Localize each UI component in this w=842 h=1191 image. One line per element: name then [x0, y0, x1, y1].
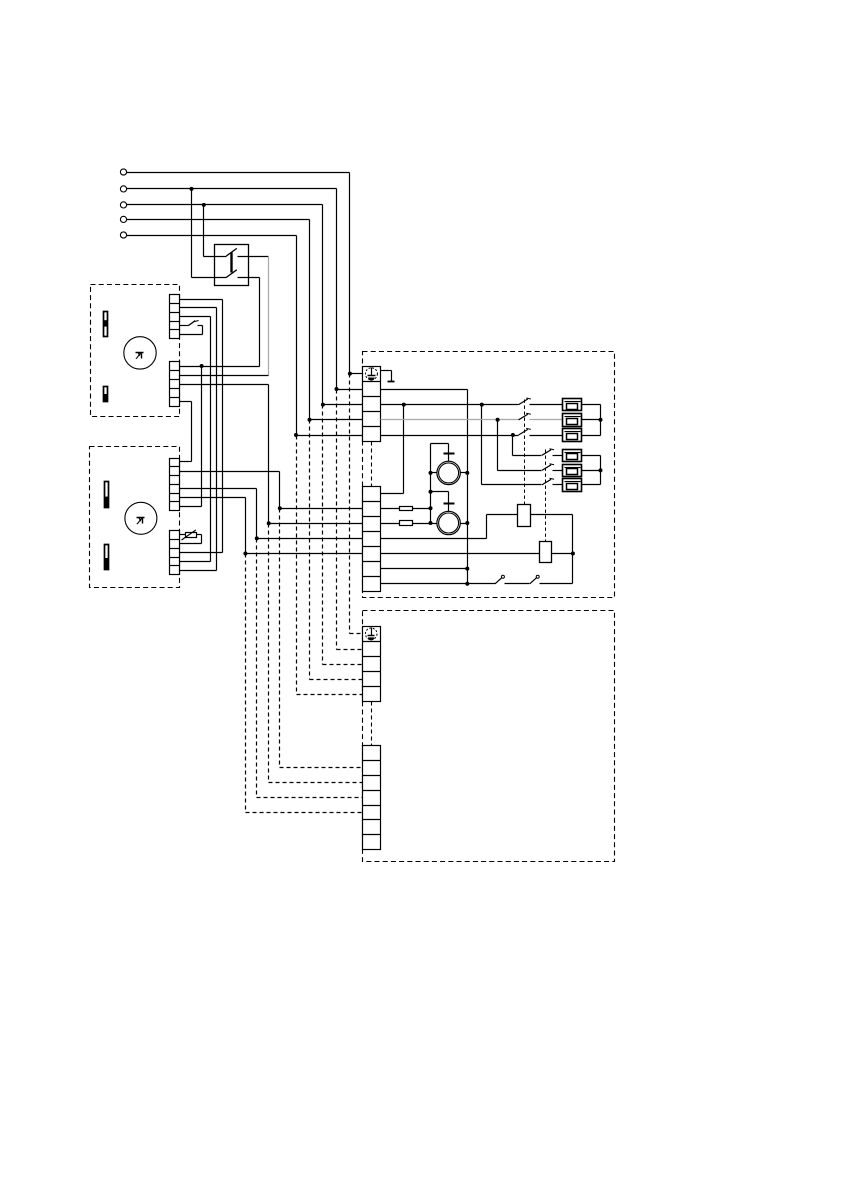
earth stub right of X3 — [381, 370, 392, 372]
supply terminal L4 (open circle) — [120, 216, 126, 222]
wire: X1 lower cell2 to switch (gray riser at x=268.6) — [180, 375, 269, 377]
terminal strip X6 (lower) — [363, 746, 381, 850]
node: row2 tap to X4.1 — [402, 403, 406, 407]
hidden wire L1 down to lower connector (dashed) — [349, 374, 351, 634]
switch S1 pole 1 right contact — [238, 256, 269, 258]
supply terminal L1 (open circle) — [120, 169, 126, 175]
wire: switch pole 2 output to motor1 strip — [180, 366, 260, 368]
node: L3 tap junction — [202, 203, 206, 207]
enclosure: motor unit 2 (dashed box) — [90, 447, 180, 588]
node L5/terminal-strip junction — [294, 433, 298, 437]
contactor K1 contact 1 (blade) — [519, 399, 528, 405]
bottom rail with thermostat contacts — [381, 583, 496, 585]
heating element E1 — [563, 399, 582, 411]
pump P1 left stub — [431, 472, 437, 474]
pump P2 left stub — [431, 523, 437, 525]
wire: X1.3 to motor2 strip (via x=210.7) — [180, 316, 211, 318]
wire L3 horizontal — [127, 204, 323, 206]
wire L4 into control strip — [310, 419, 363, 421]
pump P2 right stub — [461, 523, 468, 525]
wire: X2.2 to control strip row2 — [180, 471, 280, 473]
dashed link X3-X4 — [371, 442, 373, 487]
motor M2 (circle) — [125, 502, 157, 534]
wire L5 horizontal — [127, 235, 297, 237]
node L3/terminal-strip junction — [321, 403, 325, 407]
terminal strip X3 (control, upper) — [363, 367, 381, 442]
pump P1 right stub — [461, 472, 468, 474]
wire: K1 coil right — [531, 514, 573, 516]
pump P1 (double circle) — [437, 461, 460, 484]
wire: X3.1 right to main riser — [381, 389, 468, 391]
wire row2: X3.2 right — [381, 404, 519, 406]
wire: L3 tap down to switch pole 1 — [203, 205, 205, 257]
terminal strip X2 lower (motor unit 2) — [170, 531, 180, 575]
wire row3 (gray): X3.3 right — [381, 419, 519, 421]
heating element E3 — [563, 429, 582, 442]
switch S1 pole 1 blade — [226, 248, 237, 256]
wire L1 horizontal — [127, 172, 350, 174]
node: row2 tap to heater bank 2 — [480, 403, 484, 407]
main riser x=467.3 — [467, 390, 469, 584]
fuse F4 (motor unit 2) — [105, 545, 109, 570]
PE symbol in X3 — [365, 368, 377, 380]
wire L2 horizontal — [127, 188, 337, 190]
resistor R1 — [381, 508, 400, 510]
wire: X2.5 to control strip row5 — [180, 497, 246, 499]
wire: X2.4 to control strip row4 — [180, 488, 257, 490]
fuse F3 (motor unit 2) — [105, 482, 109, 508]
thermostat contact B1 — [495, 578, 502, 584]
contactor K1 contact 3 (blade) — [519, 429, 528, 435]
thermostat contact B2 — [530, 578, 537, 584]
supply terminal L3 (open circle) — [120, 202, 126, 208]
heater bank 1 common wire — [582, 404, 601, 406]
wire: X1 lower cell3 to control strip — [180, 384, 269, 386]
heating element E2 — [563, 414, 582, 427]
heating element E6 — [563, 479, 582, 492]
main switch S1 (box) — [215, 245, 249, 286]
supply terminal L2 (open circle) — [120, 186, 126, 192]
node: junction at control strip row2 — [278, 506, 282, 510]
terminal strip X2 upper (motor unit 2) — [170, 459, 180, 511]
wire: switch pole 1 output down (gray) — [268, 257, 270, 376]
contactor K2 contact 1 (blade) — [542, 450, 551, 456]
wire: X4.4 to relay K1 coil — [381, 538, 487, 540]
enclosure: lower connection unit (dashed box) — [363, 611, 615, 862]
wire: K2 coil right — [552, 553, 573, 555]
wire: L2 tap down to switch pole 2 — [191, 189, 193, 278]
wire: X1.1 to motor2 strip (via x=222) — [180, 299, 223, 301]
node L1/terminal-strip junction — [348, 372, 352, 376]
enclosure: motor unit 1 (dashed box) — [91, 285, 180, 417]
relay coil K2 (box) — [540, 542, 552, 563]
wire L2 into control strip — [337, 389, 363, 391]
node: junction at control strip row5 — [243, 552, 247, 556]
wire L4 vertical down — [309, 220, 311, 420]
resistor R2 — [381, 523, 400, 525]
terminal strip X4 (control, lower) — [363, 487, 381, 592]
pump P2 top stub with bar — [448, 492, 450, 512]
node: junction at control strip row4 — [255, 536, 259, 540]
PE symbol in X5 — [365, 628, 377, 640]
hidden wire down to lower connector (dashed, x=268.7) — [268, 524, 270, 783]
contactor K1 contact 2 (blade) — [519, 414, 528, 420]
thermal contact on X1.4/X1.5 — [180, 325, 189, 327]
node: junction at control strip row3 — [267, 521, 271, 525]
switch S1 pole 2 blade — [226, 270, 237, 278]
node L2/terminal-strip junction — [335, 387, 339, 391]
wire: X1.2 to motor2 strip (via x=216.4) — [180, 307, 217, 309]
terminal strip X1 upper (motor unit 1) — [170, 295, 180, 339]
pump P1 top stub with bar — [448, 444, 450, 462]
terminal strip X1 lower (motor unit 1) — [170, 362, 180, 407]
wire: switch pole 2 output down — [259, 278, 261, 367]
fuse F1 (motor unit 1) — [104, 312, 108, 337]
contactor K1 linkage (dashed) — [524, 400, 526, 505]
wire: X1 lower cell5 to motor2 strip — [180, 401, 192, 403]
hidden wire down to lower connector (dashed, x=279.8) — [279, 509, 281, 768]
wire L5 vertical down — [296, 236, 298, 436]
heating element E4 — [563, 450, 582, 462]
contactor K2 contact 3 (blade) — [542, 479, 551, 485]
terminal strip X5 (upper, with PE) — [363, 627, 381, 702]
hidden wire L5 down to lower connector (dashed) — [296, 436, 298, 695]
hidden wire L4 down to lower connector (dashed) — [309, 420, 311, 680]
switch S1 coupling bar — [230, 253, 232, 273]
hidden wire L2 down to lower connector (dashed) — [336, 390, 338, 650]
contactor K2 contact 2 (blade) — [542, 465, 551, 471]
hidden wire down to lower connector (dashed, x=245.4) — [245, 554, 247, 813]
node: row3 tap — [496, 418, 500, 422]
wire row4: X3.4 right — [381, 435, 519, 437]
node: bank1 common — [599, 418, 603, 422]
supply terminal L5 (open circle) — [120, 232, 126, 238]
dashed link X5-X6 — [371, 702, 373, 746]
node: K1/K2 common — [571, 552, 575, 556]
wire L2 vertical down — [336, 189, 338, 390]
enclosure: control unit (dashed box) — [363, 352, 615, 598]
wire: X4.6 to riser — [381, 568, 468, 570]
wire: X4.5 to relay K2 coil — [381, 553, 540, 555]
node L4/terminal-strip junction — [308, 418, 312, 422]
wire L1 vertical down — [349, 173, 351, 374]
contactor K2 linkage (dashed) — [545, 450, 547, 542]
relay coil K1 (box) — [518, 505, 531, 527]
wire L5 into control strip — [297, 435, 363, 437]
pump P2 (double circle) — [437, 511, 460, 534]
heating element E5 — [563, 465, 582, 477]
bus bar x=430.5 — [430, 444, 432, 524]
node: L2 tap junction — [190, 187, 194, 191]
wire: junction column x=201.6 down to motor2 strip cell6 — [201, 367, 203, 507]
wire L3 into control strip — [323, 404, 363, 406]
node: row4 tap — [511, 433, 515, 437]
wire L1 into control strip — [350, 373, 363, 375]
switch S1 pole 2 right contact — [238, 277, 260, 279]
wire L4 horizontal — [127, 219, 310, 221]
hidden wire L3 down to lower connector (dashed) — [322, 405, 324, 665]
wire L3 vertical down — [322, 205, 324, 405]
PTC thermistor on X2 lower cells 1-2 — [180, 534, 186, 536]
hidden wire down to lower connector (dashed, x=256.8) — [256, 539, 258, 798]
fuse F2 (motor unit 1) — [104, 387, 108, 402]
node: junction on pole-2 wire — [200, 364, 204, 368]
motor M1 (circle) — [124, 337, 156, 369]
node: bank2 common — [599, 468, 603, 472]
heater bank 2 common wire — [582, 455, 601, 457]
